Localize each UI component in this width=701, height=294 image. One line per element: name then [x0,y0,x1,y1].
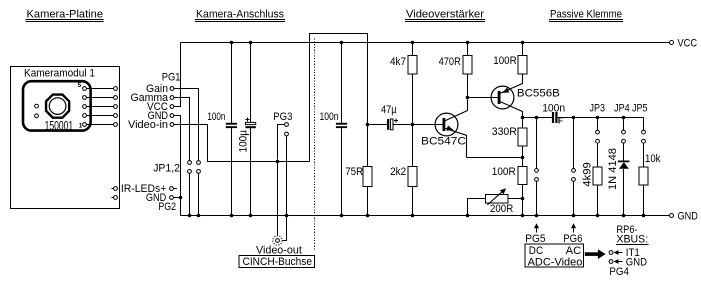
pin Video-in [170,123,174,127]
jumper JP2 bottom pin [197,170,201,174]
svg-text:4k99: 4k99 [582,162,594,187]
board pad row x115 pin3 [114,105,118,109]
junction GND rail JP2 [197,214,201,218]
svg-text:JP3: JP3 [590,103,606,115]
junction JP4 column [622,116,626,120]
capacitor C 100n series [542,103,565,126]
resistor 10k [639,143,661,217]
board pad row x115 pin4 [114,96,118,100]
arrow into GND xbus [614,259,623,264]
board pad row x115 pin5 [114,87,118,91]
wire collector node to series cap [523,117,552,119]
svg-text:470R: 470R [439,56,461,68]
svg-text:Video-out: Video-out [256,245,302,257]
stub IR-LEDs+ pin [173,188,177,190]
PG5 arrow marker [534,223,539,232]
svg-text:PG4: PG4 [609,266,629,278]
resistor 75R [345,125,372,218]
junction Q2 base node [466,96,470,100]
camera lens outer octagon [46,95,69,118]
module pin 2 pad [83,114,87,118]
pin IR-LEDs+ external [170,187,174,191]
junction 75R node [366,123,370,127]
pad IR-LEDs inside board top [114,187,118,191]
VCC rail [181,42,670,44]
svg-text:100R: 100R [492,166,516,178]
camera lens inner circle [49,98,66,115]
wire Gain pin to JP2 column [174,89,199,161]
svg-text:BC547C: BC547C [421,136,466,148]
resistor 330R [492,118,527,158]
wire video node down to cinch center [277,162,279,237]
connector PG3 bottom pin [285,132,289,136]
wire GND pin to gnd drop [173,197,180,199]
wire emitter to 330R bottom [467,157,523,159]
resistor 470R [439,41,472,98]
svg-text:CINCH-Buchse: CINCH-Buchse [243,256,313,268]
svg-text:1N 4148: 1N 4148 [607,148,619,190]
pin IT1 [609,251,613,255]
jumper JP5 pins [642,118,646,144]
connector PG5 column pins [535,118,539,218]
svg-text:100n: 100n [320,111,339,123]
svg-text:JP4: JP4 [614,103,630,115]
svg-text:JP1,2: JP1,2 [153,163,180,175]
svg-text:100R: 100R [493,55,516,67]
wire JP1 bottom to GND rail [189,173,191,215]
module pin 1 pad [83,123,87,127]
module pin 5 pad [83,87,87,91]
capacitor C 100n decoupling 2 [320,41,348,218]
svg-text:DC: DC [529,245,543,257]
wire PG3 top pin to video node [278,125,285,160]
wire module pin3 to pad [86,106,113,108]
transistor Q2 BC556B PNP [491,74,560,118]
svg-text:BC556B: BC556B [517,88,560,100]
resistor 4k7 [390,41,417,125]
heading Kamera-Anschluss [195,9,285,22]
svg-text:4k7: 4k7 [390,56,406,68]
wire GND rail to cinch shield [282,216,286,241]
junction PG6 column [572,116,576,120]
thick arrow to RP6 [585,249,606,259]
wire module pin1 to pad [86,124,113,126]
junction gnd drop [179,196,183,200]
wire JP2 bottom to GND rail [198,173,200,215]
pin Gamma [170,96,174,100]
CINCH connector center pin [276,239,280,243]
diode D1 1N4148 [607,143,629,217]
module pin 4 pad [83,96,87,100]
svg-text:10k: 10k [645,153,661,165]
PG6 arrow marker [571,223,576,232]
svg-text:Kamera-Anschluss: Kamera-Anschluss [196,9,284,21]
svg-text:XBUS:: XBUS: [616,234,648,246]
capacitor C 100n decoupling 1 [207,43,237,216]
pin GND xbus [609,260,613,264]
pin GND [170,114,174,118]
module pin 3 pad [83,105,87,109]
wire Video-in pin to signal line [174,125,310,162]
ADC-Video box [525,244,583,267]
GND rail [181,215,670,217]
svg-text:150001: 150001 [45,118,74,133]
junction emitter node [521,156,525,160]
junction JP3 column [596,116,600,120]
svg-text:2k2: 2k2 [390,166,406,178]
svg-text:330R: 330R [492,126,517,138]
CINCH-Buchse box [239,256,315,268]
svg-text:PG2: PG2 [158,201,176,213]
heading Videoverstaerker [405,9,485,22]
svg-text:47µ: 47µ [381,104,397,116]
dotted section separator [314,39,316,251]
svg-text:PG6: PG6 [563,233,582,245]
connector PG6 column pins [572,118,576,218]
resistor 2k2 [390,125,417,218]
jumper JP1 bottom pin [188,170,192,174]
svg-text:Passive Klemme: Passive Klemme [550,9,622,21]
heading Kamera-Platine [26,9,104,22]
svg-text:Kameramodul 1: Kameramodul 1 [24,68,95,80]
svg-text:5: 5 [78,82,82,89]
pin VCC [170,105,174,109]
jumper JP4 pins [622,118,626,144]
resistor 100R lower [492,158,527,218]
svg-text:100µ: 100µ [237,129,249,152]
svg-text:Video-in: Video-in [128,119,168,131]
svg-text:PG3: PG3 [273,111,292,123]
wire series cap to JP5 [558,117,644,119]
capacitor C 47u coupling [369,104,410,130]
svg-text:AC: AC [566,245,582,257]
junction PG5 column [535,116,539,120]
svg-text:1: 1 [79,122,83,129]
svg-text:ADC-Video: ADC-Video [528,257,583,269]
transistor Q1 BC547C NPN [421,100,468,158]
wire video over-route up and across [310,34,368,162]
svg-text:Videoverstärker: Videoverstärker [406,9,484,21]
svg-text:Kamera-Platine: Kamera-Platine [27,9,104,21]
module hole left upper [35,104,39,108]
pin GND external [170,196,174,200]
junction GND rail 100u [249,214,253,218]
svg-text:75R: 75R [345,166,363,178]
wire module pin2 to pad [86,115,113,117]
board pad row x115 pin2 [114,114,118,118]
capacitor C 100u electrolytic [237,43,255,216]
junction video line node [276,160,280,164]
svg-text:100n: 100n [207,111,225,123]
jumper JP1 top pin [188,161,192,165]
jumper JP2 top pin [197,161,201,165]
wire GND pin down to GND rail [174,116,181,216]
heading Passive Klemme [549,9,623,22]
junction GND rail JP1 [188,214,192,218]
wire VCC pin up to VCC rail [174,43,181,107]
board outline Kamera-Platine box [11,67,120,209]
VCC terminal circle [670,41,674,45]
jumper JP3 pins [596,118,600,144]
wire base node to Q1 [413,124,444,126]
board pad row x115 pin1 [114,123,118,127]
pin Gain [170,87,174,91]
junction VCC rail 100u [249,41,253,45]
connector PG3 top pin [285,123,289,127]
svg-text:PG1: PG1 [162,72,181,84]
GND terminal circle [670,214,674,218]
wire PG3 bottom pin to GND rail [286,136,288,216]
wire Gamma pin to JP1 column [174,98,190,161]
junction GND rail PG3 [285,214,289,218]
wire module pin4 to pad [86,97,113,99]
module hole left lower [35,114,39,118]
svg-text:GND: GND [626,257,647,269]
wire Q2 base [468,97,499,99]
stub pad top [111,188,113,190]
camera module U-MOD body [23,81,91,130]
resistor 100R upper [493,41,527,74]
svg-text:GND: GND [678,211,698,223]
junction base node [411,123,415,127]
wire module pin5 to pad [86,88,113,90]
junction GND rail 100n1 [230,214,234,218]
junction VCC rail 100n1 [230,41,234,45]
stub pad bottom [111,197,113,199]
svg-text:JP5: JP5 [632,103,648,115]
CINCH connector shield circle [273,236,282,245]
svg-text:200R: 200R [490,203,513,215]
junction collector node [521,116,525,120]
pad IR-LEDs inside board bottom [114,196,118,200]
svg-text:PG5: PG5 [525,233,545,245]
resistor 4k99 [582,143,602,217]
potentiometer 200R [466,188,525,217]
underline XBUS [616,244,649,246]
svg-text:VCC: VCC [678,38,698,50]
arrow into IT1 [614,250,623,255]
